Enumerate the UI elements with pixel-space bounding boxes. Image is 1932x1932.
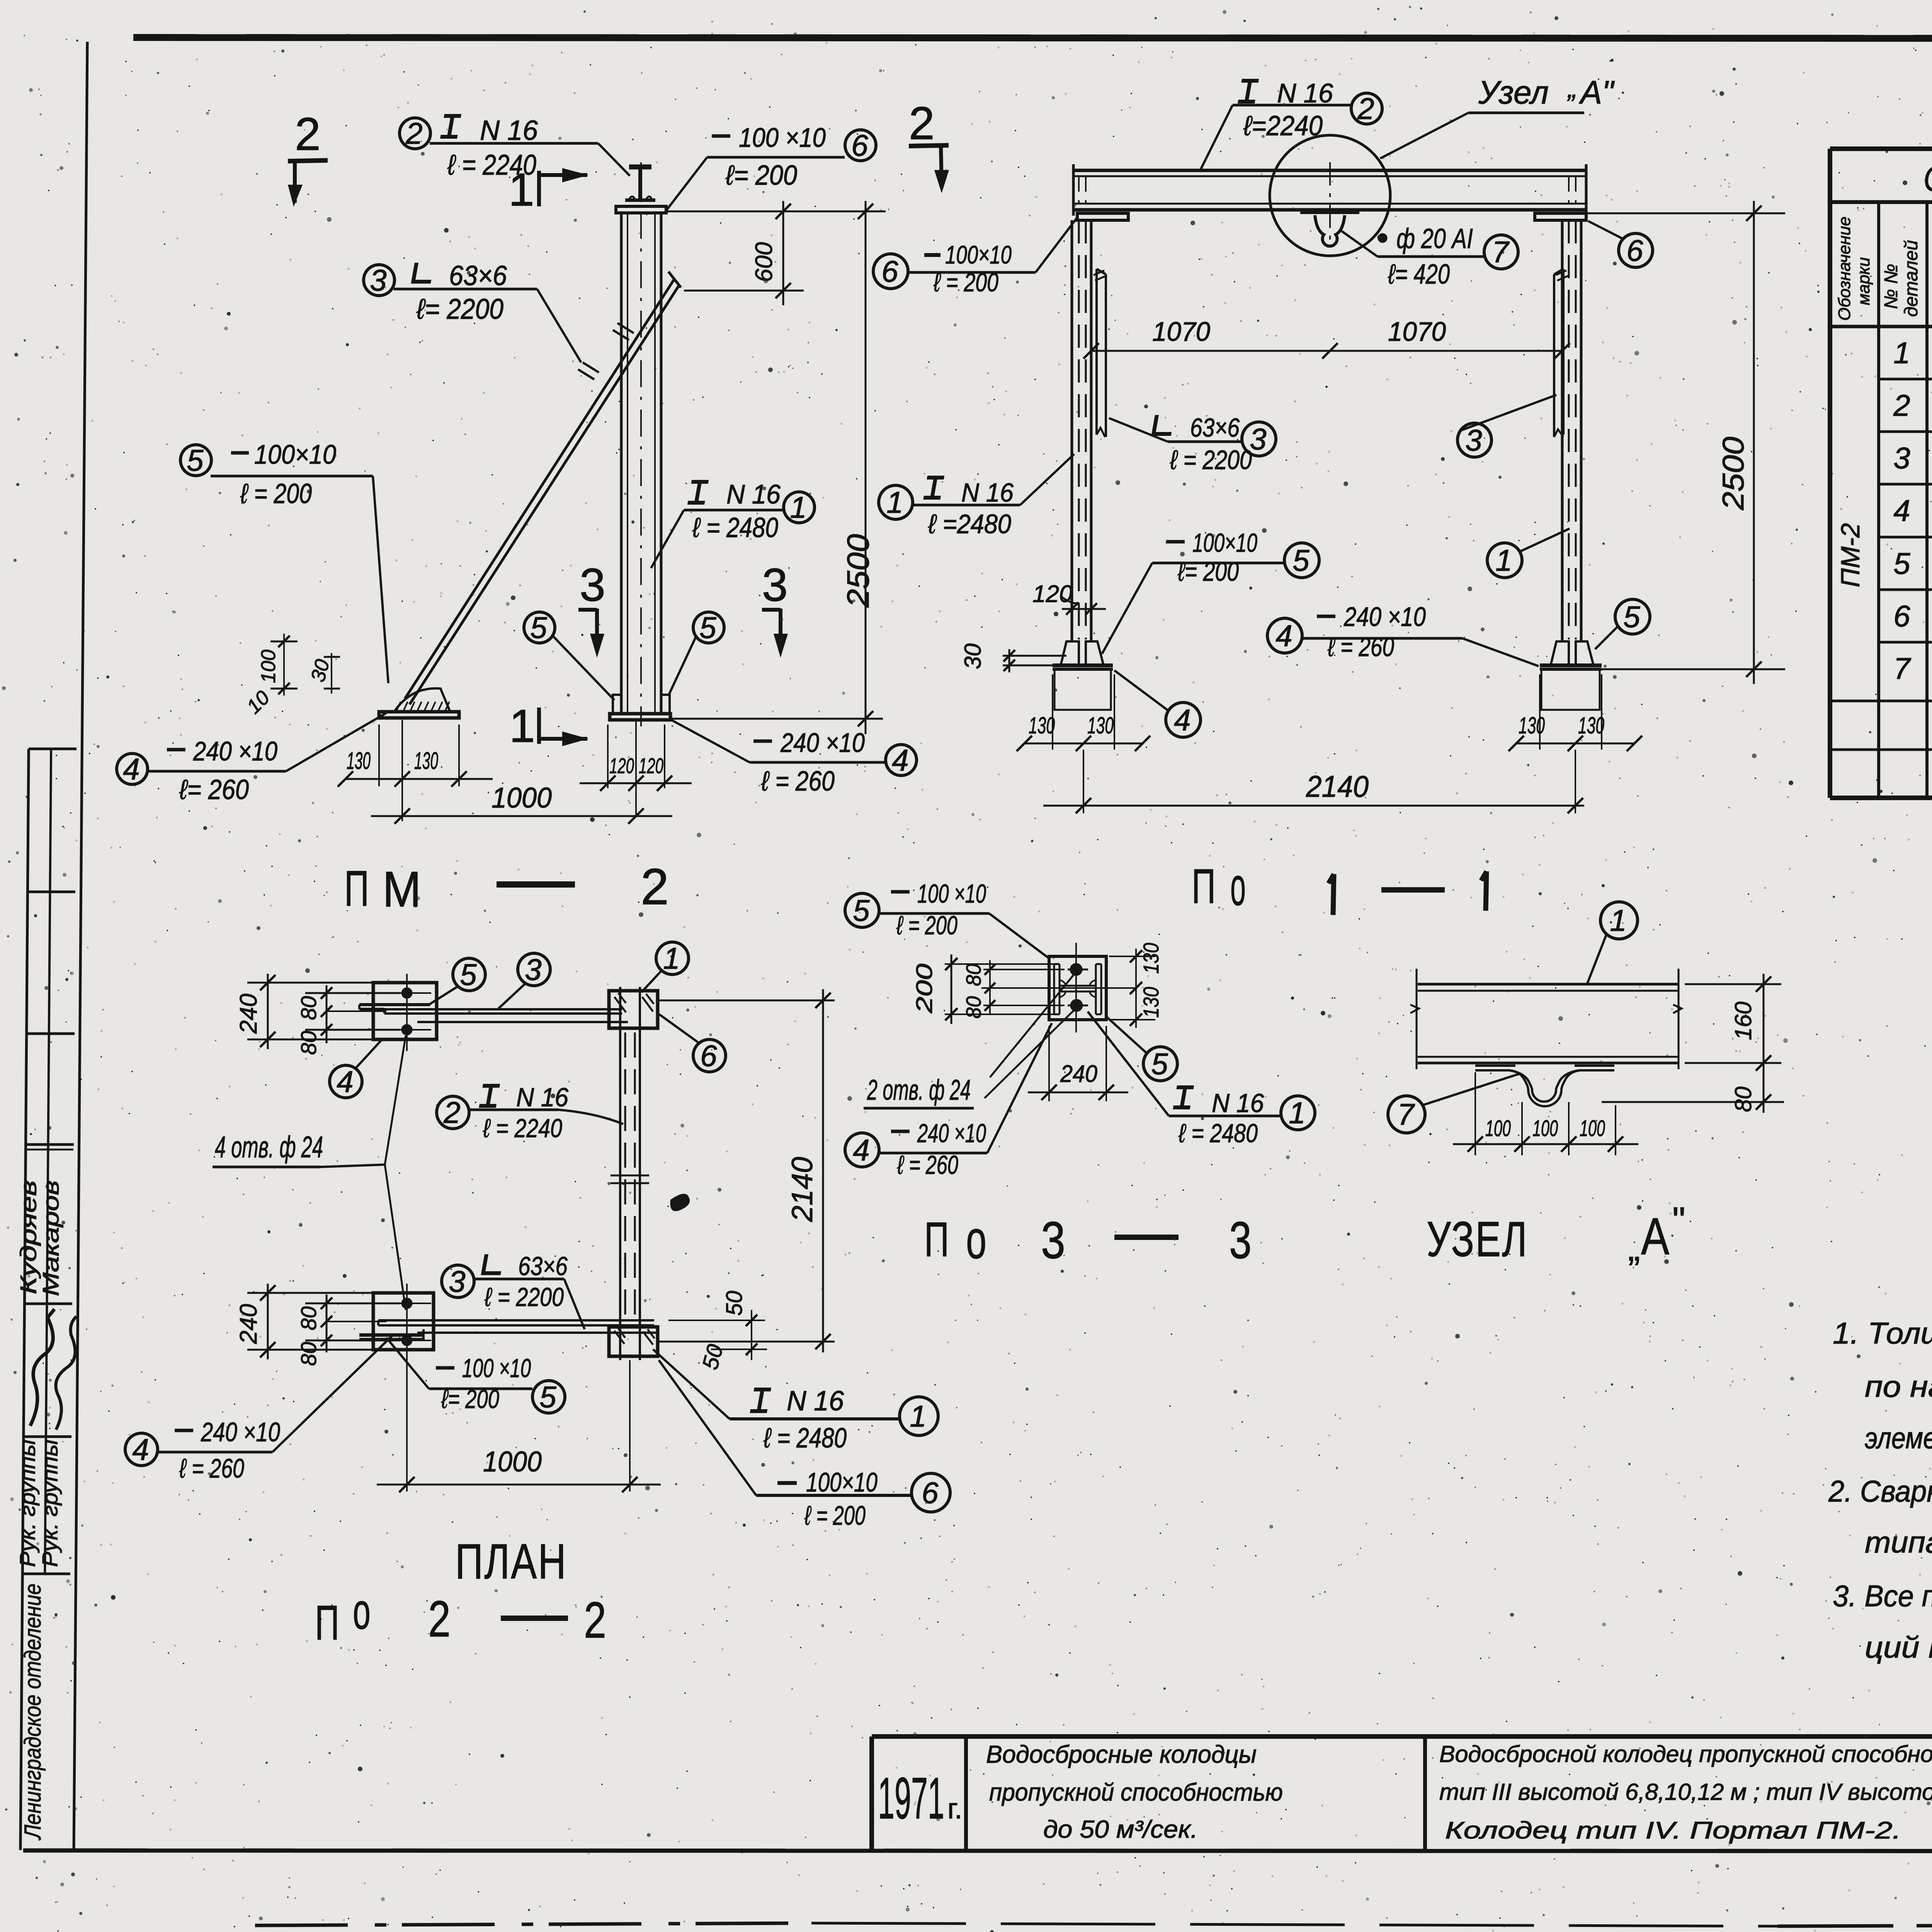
svg-text:1971: 1971 (878, 1765, 944, 1831)
svg-text:240 ×10: 240 ×10 (201, 1417, 280, 1447)
svg-text:4 отв. ф 24: 4 отв. ф 24 (215, 1130, 323, 1164)
Po1-1: dimension 2500 (right) (1586, 213, 1785, 214)
Plan: label 1 (I N16 l=2480, bottom right) (900, 1397, 938, 1435)
svg-text:5: 5 (1893, 546, 1910, 580)
Po3-3: I beam section inside (web horizontal) (1053, 964, 1055, 1014)
svg-text:5: 5 (699, 611, 716, 645)
svg-text:6: 6 (1626, 233, 1643, 267)
svg-text:ℓ = 2200: ℓ = 2200 (1170, 445, 1252, 475)
svg-text:2. Сварку производить элек: 2. Сварку производить электродами (1828, 1474, 1932, 1508)
PM-2: column I N16 (item 1), side view (620, 213, 623, 714)
svg-text:100 ×10: 100 ×10 (917, 879, 986, 908)
svg-text:1: 1 (1289, 1096, 1305, 1130)
Plan: bottom plate item 5 (359, 1333, 423, 1337)
Po1-1: top beam I N16 (item 2) (1073, 169, 1586, 172)
Plan: bottom angle member (item 3) in plan (378, 1319, 654, 1321)
svg-text:10: 10 (242, 687, 274, 718)
PM-2: column base plate 240x10 (item 4) (610, 714, 670, 720)
svg-text:ℓ= 260: ℓ= 260 (179, 774, 249, 805)
Plan: bolts in top-left plate (401, 988, 412, 998)
svg-text:100×10: 100×10 (945, 240, 1012, 269)
Po1-1: label 1 (right column) (1487, 543, 1522, 578)
svg-text:6: 6 (881, 254, 898, 288)
table column lines (1877, 202, 1880, 798)
svg-text:130: 130 (1139, 943, 1163, 974)
svg-text:ℓ = 260: ℓ = 260 (761, 766, 835, 797)
Plan: top right column plate with beam section (609, 991, 658, 1028)
svg-text:1000: 1000 (483, 1446, 542, 1478)
PM-2: labels 5-5 at base gussets (524, 612, 555, 643)
svg-text:240 ×10: 240 ×10 (917, 1119, 986, 1148)
svg-text:2: 2 (1357, 92, 1374, 126)
svg-text:3: 3 (580, 559, 605, 611)
svg-text:240: 240 (235, 1304, 262, 1344)
Po1-1: label 4 (anchor plate 240x10) (1267, 618, 1302, 653)
svg-text:30: 30 (307, 657, 334, 684)
svg-text:ℓ= 200: ℓ= 200 (1177, 556, 1239, 587)
svg-text:2: 2 (295, 108, 321, 160)
svg-text:100: 100 (1580, 1116, 1605, 1141)
Plan: bottom-left connection plate (item 4) (373, 1293, 434, 1350)
PM-2: dimension 600 (top) (666, 211, 886, 213)
svg-text:3: 3 (525, 952, 541, 986)
svg-text:А": А" (1578, 74, 1615, 111)
svg-text:4: 4 (853, 1133, 869, 1167)
svg-text:„: „ (1567, 73, 1577, 103)
svg-text:6: 6 (1893, 599, 1910, 633)
svg-text:120: 120 (1032, 581, 1072, 607)
Po1-1: right column base plate (item 4) (1540, 663, 1602, 667)
UzelA: dims 100x3 below (1475, 1072, 1476, 1155)
svg-text:130: 130 (1578, 713, 1604, 738)
svg-text:7: 7 (1492, 235, 1510, 269)
svg-text:N 16: N 16 (1212, 1088, 1264, 1118)
svg-text:ℓ = 2200: ℓ = 2200 (484, 1282, 564, 1312)
Plan: dimension 1000 (bottom) (406, 1352, 408, 1492)
svg-text:г.: г. (947, 1793, 963, 1825)
PM-2: beam I N16 end section on top (item 2) (629, 165, 651, 170)
svg-text:100 ×10: 100 ×10 (462, 1354, 531, 1383)
svg-text:1070: 1070 (1388, 316, 1446, 347)
svg-text:до 50 м³/сек.: до 50 м³/сек. (1043, 1815, 1198, 1843)
svg-text:100×10: 100×10 (806, 1467, 878, 1497)
Plan: dimension 2140 (right side) (658, 1000, 835, 1002)
svg-text:5: 5 (187, 443, 204, 477)
svg-text:2: 2 (641, 858, 669, 915)
svg-text:1000: 1000 (492, 782, 552, 814)
svg-text:50: 50 (697, 1342, 728, 1372)
sheet frame: bottom border thick line (23, 1850, 1932, 1851)
svg-text:ℓ= 200: ℓ= 200 (441, 1384, 499, 1414)
svg-text:N 16: N 16 (1277, 78, 1333, 108)
Plan: dim 240 / 80 80 bottom left (247, 1292, 379, 1294)
UzelA: dim 160 / 80 (right) (1685, 983, 1781, 985)
Po1-1: dimension 2140 (bottom) (1083, 750, 1084, 813)
Plan: label 3 (top) (518, 953, 550, 986)
svg-text:Рук. группы: Рук. группы (37, 1439, 62, 1567)
svg-text:N 16: N 16 (787, 1386, 844, 1417)
svg-text:Спецификация: Спецификация (1923, 159, 1932, 199)
svg-text:1: 1 (509, 700, 535, 752)
svg-text:П: П (924, 1212, 949, 1267)
svg-text:1: 1 (1893, 336, 1910, 370)
svg-text:4: 4 (1174, 703, 1190, 737)
svg-text:240 ×10: 240 ×10 (780, 728, 865, 758)
svg-text:63×6: 63×6 (449, 260, 507, 291)
svg-text:ℓ = 200: ℓ = 200 (804, 1500, 866, 1531)
svg-text:ℓ = 200: ℓ = 200 (933, 268, 998, 297)
svg-text:2140: 2140 (1306, 769, 1369, 803)
UzelA: label 7 (1388, 1096, 1425, 1133)
PM-2: brace base plate (item 4) (379, 712, 459, 718)
svg-text:63×6: 63×6 (1190, 413, 1240, 442)
Plan: label 6 (plate 100x10, bottom right) (912, 1473, 950, 1512)
svg-text:„: „ (1628, 1228, 1640, 1269)
svg-text:100 ×10: 100 ×10 (739, 122, 826, 153)
svg-text:ций покрыть лаком АЛ-177: ций покрыть лаком АЛ-177 за 2 раза: (1865, 1630, 1932, 1664)
PM-2: label 1 (column I N16 l=2480) (784, 492, 815, 523)
svg-text:5: 5 (1293, 543, 1310, 577)
svg-text:5: 5 (1623, 600, 1640, 634)
Po1-1: detail circle Uzel A (1270, 135, 1390, 256)
svg-text:2: 2 (1893, 388, 1910, 422)
Po3-3: dim 200 (left) (945, 963, 1055, 965)
svg-text:6: 6 (922, 1476, 939, 1510)
PM-2: top plate 100x10 (item 6) (616, 206, 666, 213)
svg-text:80: 80 (296, 1342, 321, 1366)
svg-text:100: 100 (1532, 1116, 1558, 1141)
svg-text:5: 5 (539, 1380, 556, 1414)
svg-text:элементов.: элементов. (1865, 1421, 1932, 1455)
Po1-1: right pedestal (1541, 669, 1600, 710)
Po1-1: plates 100x10 under beam ends (item 6) (1077, 213, 1128, 220)
svg-text:3: 3 (1893, 441, 1910, 475)
svg-text:N 16: N 16 (480, 115, 538, 146)
svg-text:4: 4 (1893, 493, 1910, 527)
svg-text:5: 5 (1151, 1047, 1168, 1081)
svg-text:П: П (315, 1595, 339, 1650)
svg-text:ℓ = 2480: ℓ = 2480 (692, 512, 778, 543)
PM-2: label 6 (plate 100x10 top) (845, 130, 876, 161)
svg-text:Колодец тип IV. Портал ПМ-: Колодец тип IV. Портал ПМ-2. (1445, 1817, 1901, 1844)
table header separator (1830, 200, 1932, 204)
svg-text:4: 4 (123, 752, 139, 786)
header row bottom line (1830, 325, 1932, 328)
svg-text:2140: 2140 (786, 1157, 819, 1222)
svg-text:N 16: N 16 (516, 1083, 568, 1112)
svg-text:ℓ = 2480: ℓ = 2480 (1178, 1119, 1258, 1148)
smudged reproduction line at very bottom (255, 1923, 811, 1925)
PM-2: dimension 1000 (bottom) (401, 786, 403, 821)
svg-text:100: 100 (257, 650, 280, 683)
svg-text:Водосбросные колодцы: Водосбросные колодцы (986, 1740, 1257, 1768)
Plan: dim 240 / 80 80 top left (247, 982, 379, 984)
Po1-1: brace angle strip left (item 3) (1095, 269, 1098, 435)
svg-text:ℓ = 200: ℓ = 200 (896, 911, 957, 940)
svg-text:1: 1 (910, 1399, 926, 1433)
svg-text:ℓ= 2200: ℓ= 2200 (416, 293, 503, 325)
svg-text:80: 80 (962, 964, 985, 986)
svg-text:4: 4 (337, 1065, 353, 1099)
Plan: label 5 (bottom plate 100x10) (532, 1381, 565, 1413)
svg-text:200: 200 (912, 964, 937, 1014)
Po3-3: dim 80 80 (left inner) (983, 969, 1065, 970)
title block divider lines (964, 1736, 968, 1850)
sheet frame: left border line (74, 42, 87, 1850)
svg-text:2: 2 (405, 116, 422, 150)
svg-text:4: 4 (892, 743, 908, 777)
svg-text:6: 6 (851, 128, 868, 162)
svg-text:100: 100 (1485, 1116, 1511, 1141)
svg-text:7: 7 (1397, 1097, 1415, 1131)
svg-text:ℓ = 260: ℓ = 260 (897, 1150, 958, 1180)
svg-text:1: 1 (1610, 903, 1626, 937)
Po1-1: label 3 (right angle) (1458, 423, 1492, 457)
Po1-1: dashed column flange lines through beam (1078, 176, 1080, 204)
svg-text:ℓ = 200: ℓ = 200 (240, 478, 312, 509)
Plan: beam break mark (611, 1175, 649, 1177)
Po3-3: dim 130 130 (right) (1109, 956, 1155, 957)
svg-text:Ленинградское отделение: Ленинградское отделение (20, 1583, 46, 1840)
svg-text:5: 5 (530, 611, 547, 645)
svg-text:130: 130 (1087, 713, 1114, 738)
PM-2: label 4 (base plate right) (886, 745, 917, 776)
Plan: beam I N16 (item 2) going down, dashed web (619, 1032, 621, 1327)
svg-text:2: 2 (909, 97, 935, 149)
svg-text:по наименьшей толщине свар: по наименьшей толщине свариваемых (1865, 1369, 1932, 1403)
svg-text:100×10: 100×10 (254, 439, 336, 469)
svg-text:3. Все поверхности металли: 3. Все поверхности металлических констру… (1833, 1579, 1932, 1613)
svg-text:600: 600 (751, 242, 777, 282)
Po1-1: left column base: gussets item 5 (1061, 641, 1079, 664)
UzelA: lifting loop item 7 (1475, 1065, 1515, 1067)
svg-text:2500: 2500 (1716, 437, 1750, 510)
svg-text:№ №: № № (1881, 264, 1901, 309)
PM-2: label 2 (I N16 l=2240) (400, 118, 430, 149)
svg-text:Обозначение: Обозначение (1835, 216, 1854, 321)
UzelA: label 1 (1600, 902, 1638, 939)
PM-2: label 4 (base plate left) (117, 753, 148, 784)
scan noise speckles (1712, 90, 1715, 93)
svg-text:240 ×10: 240 ×10 (193, 736, 277, 766)
svg-text:100×10: 100×10 (1192, 528, 1257, 558)
svg-text:1: 1 (886, 485, 903, 519)
Po1-1: left column (item 1) (1071, 220, 1073, 641)
svg-text:М: М (383, 861, 421, 917)
svg-text:": " (1672, 1200, 1685, 1241)
svg-text:1: 1 (790, 490, 806, 524)
svg-text:120: 120 (639, 753, 663, 778)
Plan: top angle member (item 3) in plan (384, 1008, 622, 1010)
Po1-1: left pedestal (1054, 669, 1111, 710)
Po1-1: left column base plate (item 4) (1053, 663, 1113, 667)
svg-text:80: 80 (296, 996, 321, 1020)
svg-text:ф 20 АI: ф 20 АI (1396, 223, 1473, 254)
stamp cell: signature 2 (56, 1316, 77, 1430)
Po1-1: label 6 (right top plate) (1619, 233, 1653, 267)
svg-text:ℓ= 420: ℓ= 420 (1388, 259, 1450, 290)
svg-text:1: 1 (663, 941, 680, 975)
svg-text:пропускной способностью: пропускной способностью (989, 1778, 1283, 1806)
svg-text:2 отв. ф 24: 2 отв. ф 24 (867, 1074, 971, 1106)
svg-text:ℓ = 2240: ℓ = 2240 (483, 1114, 562, 1143)
svg-text:2: 2 (443, 1095, 460, 1129)
svg-text:ℓ = 260: ℓ = 260 (1327, 632, 1394, 662)
svg-text:240: 240 (1060, 1061, 1097, 1087)
svg-text:1: 1 (509, 164, 534, 216)
svg-text:деталей: деталей (1901, 240, 1922, 317)
svg-text:5: 5 (853, 893, 870, 927)
Plan: label 1 (top right) (656, 942, 689, 975)
Po3-3: label 1 (I N16) (1281, 1096, 1315, 1130)
Po1-1: label 6 (left, plate 100x10) (873, 254, 908, 289)
svg-text:о: о (1230, 856, 1246, 917)
Po1-1: brace angle strip right (item 3) (1562, 269, 1565, 435)
stamp column table (left margin) (20, 749, 29, 1850)
svg-text:4: 4 (1276, 619, 1292, 653)
svg-text:П: П (344, 860, 369, 917)
svg-text:Макаров: Макаров (39, 1180, 64, 1296)
Plan: top-left connection plate (item 4) (373, 983, 437, 1039)
Plan: label 3 (lower angle) (442, 1265, 474, 1298)
svg-text:80: 80 (962, 996, 985, 1019)
svg-text:3: 3 (1250, 422, 1266, 456)
Po1-1: label 3 (left angle) (1242, 422, 1276, 456)
Plan: label 5 (top) (453, 958, 485, 991)
svg-text:Рук. группы: Рук. группы (15, 1439, 39, 1567)
PM-2: dimension 2500 (right) (865, 201, 867, 734)
Po3-3: label 5 (right) (1143, 1047, 1177, 1081)
svg-text:типа Э-42.: типа Э-42. (1865, 1525, 1932, 1559)
svg-text:ℓ = 2480: ℓ = 2480 (763, 1423, 847, 1454)
svg-text:ℓ = 260: ℓ = 260 (179, 1453, 244, 1483)
svg-text:3: 3 (1229, 1211, 1252, 1269)
PM-2: label 3 (L63x6 l=2200) (364, 265, 395, 296)
svg-text:50: 50 (722, 1291, 747, 1316)
svg-text:УЗЕЛ: УЗЕЛ (1427, 1212, 1528, 1267)
Plan: bottom right column plate (609, 1327, 658, 1356)
PM-2: dimension 120 120 under column (607, 724, 609, 788)
Po3-3: dim 240 (bottom) (1048, 1026, 1050, 1101)
svg-text:о: о (966, 1209, 986, 1270)
svg-text:о: о (353, 1583, 371, 1639)
svg-text:240: 240 (235, 994, 262, 1034)
Po1-1: beam center line (1329, 162, 1331, 247)
svg-text:130: 130 (414, 748, 438, 774)
svg-text:30: 30 (960, 643, 986, 669)
Po3-3: centerlines (1075, 943, 1077, 1032)
PM-2: gusset plates at column base (item 5) (613, 695, 621, 714)
Po3-3: bolts (1070, 963, 1082, 976)
Po1-1: lifting loop f20 under beam (item 7) (1300, 210, 1359, 214)
Po1-1: label 4 (left base, below) (1166, 702, 1201, 737)
PM-2: label 5 (plate 100x10 left) (180, 445, 211, 476)
Po3-3: bolt leader lines to 2 otv text (990, 972, 1076, 1077)
PM-2: small dims 100 30 10 at left base (270, 641, 298, 643)
svg-text:Водосбросной колодец пропускно: Водосбросной колодец пропускной способно… (1439, 1741, 1932, 1767)
Po1-1: dims 130 130 under left base (1052, 674, 1053, 750)
svg-text:6: 6 (700, 1039, 717, 1073)
PM-2: brace angle L63x6 (item 3), diagonal (405, 280, 674, 699)
Po1-1: label 1 (left column) (879, 485, 913, 519)
svg-text:130: 130 (347, 748, 371, 774)
Po1-1: label 5 (right gusset) (1615, 599, 1650, 634)
Po1-1: right column base: gussets item 5 (1551, 641, 1569, 664)
svg-text:80: 80 (296, 1306, 321, 1330)
Plan: bolts in bottom-left plate (401, 1298, 412, 1309)
svg-text:марки: марки (1854, 257, 1873, 305)
svg-text:130: 130 (1029, 713, 1055, 738)
Po1-1: label 7 (f20 AI rod) (1484, 235, 1518, 269)
Plan: label 6 (top right lower) (693, 1039, 726, 1072)
stamp cell: signature 1 (30, 1309, 54, 1426)
svg-text:3: 3 (762, 559, 788, 611)
Po1-1: label 5 (left mid gusset) (1284, 543, 1319, 578)
Plan: label 4 (bottom left) (125, 1433, 158, 1466)
specification table: outer border (1830, 146, 1932, 151)
svg-text:П: П (1192, 859, 1216, 913)
svg-text:80: 80 (1730, 1087, 1756, 1112)
svg-text:N 16: N 16 (961, 478, 1014, 507)
svg-text:1. Толщину сварных швов: 1. Толщину сварных швов принимать (1833, 1316, 1932, 1350)
Plan: ink blot (670, 1194, 690, 1211)
svg-text:ℓ= 200: ℓ= 200 (725, 160, 797, 191)
PM-2: brace foot gusset with fan hatching (394, 689, 450, 712)
PM-2: weld tick marks on brace (617, 323, 634, 333)
svg-text:130: 130 (1139, 987, 1163, 1018)
Po1-1: dimension 1070 1070 (1091, 350, 1562, 352)
svg-text:ℓ =2480: ℓ =2480 (928, 509, 1011, 539)
svg-text:Узел: Узел (1478, 74, 1549, 111)
Po1-1: right column (item 1) (1561, 220, 1564, 641)
svg-text:ℓ=2240: ℓ=2240 (1243, 111, 1323, 141)
svg-text:2: 2 (584, 1592, 606, 1648)
Po3-3: label 5 (top left plate) (845, 893, 879, 927)
Plan: label 4 (top left) (330, 1065, 362, 1098)
svg-text:1070: 1070 (1152, 316, 1210, 347)
svg-text:80: 80 (296, 1031, 321, 1055)
title block outer box (872, 1734, 1932, 1739)
svg-text:5: 5 (460, 957, 477, 992)
svg-text:160: 160 (1730, 1002, 1756, 1040)
UzelA: beam side view I N16 (1418, 983, 1679, 986)
svg-text:1: 1 (1495, 543, 1512, 577)
svg-text:2: 2 (428, 1590, 451, 1647)
Plan: top plate item 5 protruding left (359, 1003, 430, 1006)
sheet frame: top border thick line (133, 37, 1932, 39)
svg-text:130: 130 (1519, 713, 1545, 738)
Po3-3: outer plates square (1049, 956, 1106, 1020)
svg-text:7: 7 (1893, 651, 1911, 685)
svg-text:3: 3 (370, 263, 386, 297)
PM-2: dimension 130 130 under brace foot (378, 724, 380, 786)
svg-text:ПМ-2: ПМ-2 (1836, 523, 1865, 587)
svg-text:3: 3 (1041, 1211, 1065, 1269)
svg-text:4: 4 (132, 1432, 149, 1466)
svg-text:240 ×10: 240 ×10 (1344, 602, 1426, 632)
Plan: label 2 (beam) (437, 1096, 469, 1129)
svg-text:тип III высотой 6,8,10,12 м ;: тип III высотой 6,8,10,12 м ; тип IV выс… (1439, 1779, 1932, 1805)
svg-text:ПЛАН: ПЛАН (455, 1534, 567, 1589)
svg-text:120: 120 (609, 753, 634, 778)
Po1-1: dims 130 130 under right base (1539, 674, 1541, 750)
table row lines (1879, 378, 1932, 381)
svg-text:N 16: N 16 (726, 479, 781, 509)
Po3-3: label 4 (plate 240x10) (845, 1133, 879, 1167)
Po1-1: label 2 (I N16 l=2240 beam) (1351, 93, 1382, 124)
svg-text:2500: 2500 (841, 534, 875, 608)
